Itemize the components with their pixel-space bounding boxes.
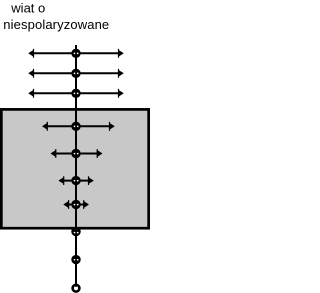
svg-text:wiat o: wiat o	[10, 1, 45, 16]
svg-text:niespolaryzowane: niespolaryzowane	[3, 17, 109, 32]
